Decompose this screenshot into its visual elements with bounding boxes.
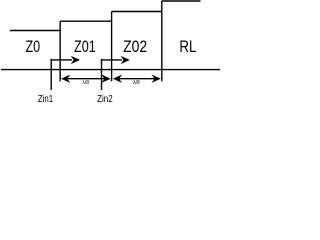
wire: Z0 top conductor — [10, 30, 60, 32]
wire: Z0/Z01 step vertical — [59, 21, 61, 81]
svg-text:λ/8: λ/8 — [133, 80, 140, 86]
node Zin1 reference-plane tick — [50, 59, 52, 90]
wire: Z01 top conductor — [60, 20, 111, 22]
wire: RL top conductor — [162, 0, 201, 2]
stepped transmission-line matching network schematic — [0, 0, 222, 106]
dimension A left arrowhead — [61, 75, 70, 83]
wire: Zin1 arrow shaft — [51, 59, 72, 61]
Zin2 arrowhead — [121, 56, 130, 64]
svg-text:Zin1: Zin1 — [38, 93, 53, 104]
svg-text:RL: RL — [179, 38, 196, 57]
dimension B right arrowhead — [152, 75, 161, 83]
svg-text:Z01: Z01 — [74, 39, 96, 57]
wire: lambda/8 dimension B shaft — [115, 78, 160, 80]
wire: bottom ground conductor — [1, 69, 220, 71]
Zin1 arrowhead — [71, 56, 80, 64]
svg-text:Z02: Z02 — [123, 38, 147, 56]
svg-text:λ/8: λ/8 — [82, 80, 89, 86]
dimension A right arrowhead — [101, 75, 110, 83]
dimension B left arrowhead — [113, 75, 122, 83]
wire: lambda/8 dimension A shaft — [63, 78, 109, 80]
svg-text:Z0: Z0 — [25, 39, 40, 57]
svg-text:Zin2: Zin2 — [97, 93, 113, 104]
wire: Zin2 arrow shaft — [102, 59, 123, 61]
wire: Z02 top conductor — [112, 11, 162, 13]
node Zin2 reference-plane tick — [101, 59, 103, 90]
wire: Z02/RL step vertical — [161, 1, 163, 81]
wire: Z01/Z02 step vertical — [111, 12, 113, 82]
